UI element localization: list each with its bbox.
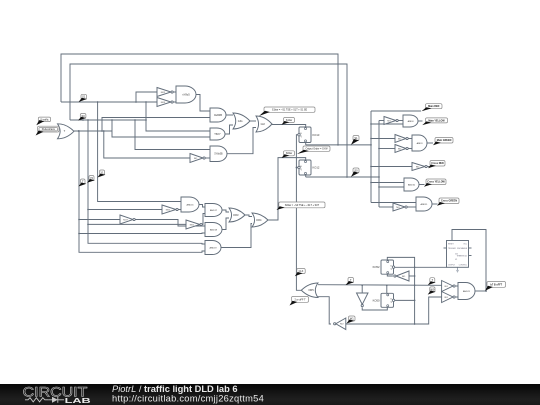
svg-text:OR5: OR5	[308, 288, 314, 292]
svg-text:Main RED: Main RED	[428, 105, 439, 108]
svg-text:Cross GREEN: Cross GREEN	[441, 200, 457, 203]
svg-text:sY8o5: sY8o5	[182, 92, 190, 96]
svg-text:AND8: AND8	[408, 120, 415, 123]
svg-text:T6XY: T6XY	[214, 132, 221, 136]
svg-text:Y1: Y1	[100, 170, 104, 174]
svg-text:NO: NO	[398, 148, 402, 150]
svg-text:Y0: Y0	[90, 176, 94, 180]
svg-text:5Y8o5B: 5Y8o5B	[214, 154, 223, 156]
svg-text:S0: S0	[82, 114, 86, 118]
svg-text:S1bar: S1bar	[286, 119, 293, 122]
svg-text:OUTPUT: OUTPUT	[448, 265, 455, 267]
svg-text:AND11: AND11	[421, 203, 429, 206]
svg-text:Pedestrians: Pedestrians	[42, 128, 56, 131]
svg-text:AND17: AND17	[210, 209, 218, 212]
svg-text:b7 B oFFT: b7 B oFFT	[490, 283, 502, 286]
svg-text:NO: NO	[445, 297, 449, 299]
svg-text:Main GREEN: Main GREEN	[437, 139, 452, 142]
svg-text:OR4: OR4	[256, 218, 262, 222]
svg-text:NO: NO	[398, 138, 402, 140]
svg-text:KO52: KO52	[373, 265, 380, 269]
svg-text:AND10: AND10	[408, 183, 416, 186]
svg-text:RESET: RESET	[448, 243, 454, 245]
svg-text:NO3: NO3	[161, 102, 166, 104]
svg-text:AND16: AND16	[186, 203, 194, 206]
svg-text:GI2: GI2	[261, 122, 266, 126]
svg-text:TRIGGER: TRIGGER	[448, 248, 456, 250]
svg-text:NO: NO	[194, 158, 198, 160]
svg-text:CONTROL: CONTROL	[459, 265, 467, 267]
svg-text:555: 555	[455, 254, 458, 256]
svg-text:GIG: GIG	[238, 119, 243, 123]
svg-text:NO2: NO2	[161, 92, 166, 94]
svg-text:OR3: OR3	[233, 213, 239, 217]
svg-text:S0: S0	[354, 168, 358, 172]
svg-text:NO: NO	[396, 207, 400, 209]
svg-text:THRESHOLD: THRESHOLD	[457, 255, 468, 257]
svg-text:Cross RED: Cross RED	[431, 162, 444, 165]
svg-text:Output Order = SYW: Output Order = SYW	[305, 148, 328, 151]
svg-text:NO1: NO1	[166, 209, 171, 211]
svg-text:NO: NO	[387, 120, 391, 122]
svg-text:S traffic: S traffic	[40, 118, 49, 121]
svg-text:NO: NO	[340, 324, 344, 326]
svg-text:S1: S1	[354, 136, 358, 140]
svg-text:W1: W1	[350, 316, 354, 320]
svg-text:LAB: LAB	[65, 396, 92, 405]
svg-text:KO50: KO50	[373, 298, 380, 302]
svg-text:AND9: AND9	[417, 142, 424, 145]
svg-text:AND18: AND18	[210, 228, 218, 231]
svg-text:S1bar = ~S1 TSE + S1T + S1 SE: S1bar = ~S1 TSE + S1T + S1 SE	[272, 109, 308, 112]
svg-text:AND19: AND19	[209, 246, 217, 249]
svg-text:http://circuitlab.com/cmjj26zq: http://circuitlab.com/cmjj26zqttm54	[112, 394, 264, 404]
svg-text:Cross YELLOW: Cross YELLOW	[427, 181, 445, 184]
svg-text:AND21: AND21	[463, 290, 471, 293]
svg-text:NO: NO	[445, 286, 449, 288]
svg-text:S1: S1	[82, 95, 86, 99]
svg-text:NO1: NO1	[190, 224, 195, 226]
svg-text:S0bar = ~S0 TSE + ~S1T + S0T: S0bar = ~S0 TSE + ~S1T + S0T	[285, 204, 320, 207]
svg-text:KO12: KO12	[313, 166, 320, 170]
svg-text:W0: W0	[430, 287, 434, 291]
svg-text:NO7: NO7	[123, 219, 128, 221]
svg-text:0w60B: 0w60B	[214, 113, 222, 117]
svg-text:U1: U1	[455, 259, 457, 261]
svg-text:DISCHARGE: DISCHARGE	[457, 247, 468, 250]
svg-text:NO: NO	[402, 276, 406, 278]
svg-text:2 or oFF T: 2 or oFF T	[294, 298, 306, 301]
svg-text:CLK: CLK	[299, 270, 304, 273]
svg-text:KO13: KO13	[313, 133, 320, 137]
svg-text:NO: NO	[416, 166, 420, 168]
svg-text:Main YELLOW: Main YELLOW	[428, 119, 445, 122]
svg-text:S0bar: S0bar	[286, 152, 293, 155]
